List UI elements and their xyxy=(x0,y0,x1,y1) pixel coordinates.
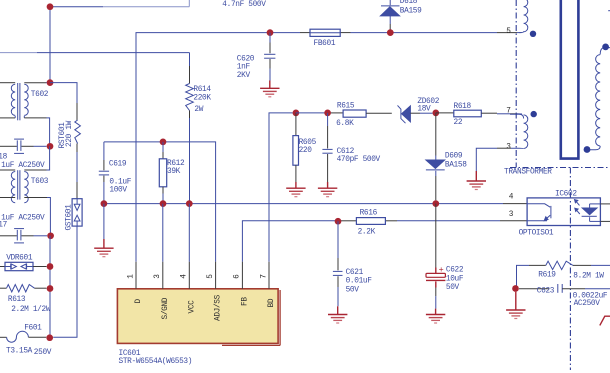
svg-text:2.2M 1/2W: 2.2M 1/2W xyxy=(11,306,51,314)
svg-text:C618: C618 xyxy=(0,154,8,162)
LED inside IC602 xyxy=(582,208,597,215)
resistor R605 220 xyxy=(295,113,297,136)
ground for R619/C623 xyxy=(506,292,525,319)
node: C618 right junction xyxy=(47,143,54,150)
node: T602 top junction xyxy=(47,79,54,86)
pin 5 lead of IC601 xyxy=(215,262,217,289)
capacitor C617 (X-cap) xyxy=(0,235,5,237)
wire: IC pin4 lead xyxy=(188,204,190,262)
svg-text:22: 22 xyxy=(454,119,463,127)
svg-text:4: 4 xyxy=(181,274,189,279)
polarity dot secondary bottom (blue) xyxy=(584,146,591,153)
svg-text:5: 5 xyxy=(207,274,215,279)
diode D609 BA158 xyxy=(435,113,437,156)
transformer primary winding pin5 (top) xyxy=(519,0,528,33)
node: fuse junction xyxy=(46,334,53,341)
svg-text:R614: R614 xyxy=(193,86,211,94)
svg-text:C623: C623 xyxy=(537,288,555,296)
svg-text:FB601: FB601 xyxy=(314,40,336,48)
transformer T602 xyxy=(0,82,5,84)
svg-text:4: 4 xyxy=(509,194,514,202)
transformer primary winding pins 7-3 xyxy=(510,114,524,118)
resistor R612 39K xyxy=(162,142,164,152)
transformer core xyxy=(561,0,579,159)
svg-text:0.1uF: 0.1uF xyxy=(109,179,131,187)
resistor R615 6.8K xyxy=(343,110,366,117)
varistor VDR601 xyxy=(0,266,5,268)
stub winding at top right edge xyxy=(608,10,610,12)
svg-text:6: 6 xyxy=(234,274,242,279)
ground for C622 xyxy=(426,309,445,323)
optocoupler IC602 box xyxy=(527,198,600,226)
svg-text:3: 3 xyxy=(506,143,511,151)
op-amp U1 style IC601 STR-W6554A body xyxy=(117,289,278,344)
svg-text:5: 5 xyxy=(506,28,511,36)
pin 6 lead of IC601 xyxy=(241,262,243,289)
node: D618 anode junction on drain net xyxy=(387,29,394,36)
svg-text:1nF: 1nF xyxy=(237,64,251,72)
node: R605/BD junction xyxy=(293,110,300,117)
wire: drain net from IC pin1 up and right to transformer pin5 xyxy=(136,33,300,262)
wire: pin3 to ground xyxy=(497,147,511,149)
svg-text:220: 220 xyxy=(299,147,313,155)
svg-text:BA158: BA158 xyxy=(445,162,467,170)
diode D618 xyxy=(389,0,391,5)
resistor RST601 220 1W (vertical) xyxy=(50,83,77,103)
svg-text:IC601: IC601 xyxy=(119,350,141,358)
wire: S/GND rail (y=203.6) long horizontal xyxy=(104,203,503,205)
pin 1 lead of IC601 xyxy=(135,262,137,289)
transformer T603 xyxy=(0,169,5,171)
svg-text:100V: 100V xyxy=(109,186,127,194)
svg-text:2KV: 2KV xyxy=(237,72,251,80)
red annotation mark bottom right xyxy=(600,316,610,325)
svg-text:250V: 250V xyxy=(34,349,52,357)
svg-text:220K: 220K xyxy=(193,95,211,103)
svg-text:BA159: BA159 xyxy=(400,7,422,15)
svg-text:C612: C612 xyxy=(337,148,355,156)
wire: C619 down to ground xyxy=(103,204,105,239)
wire: GST601 down to fuse node xyxy=(53,226,77,337)
capacitor C620 xyxy=(269,33,271,43)
svg-text:2W: 2W xyxy=(194,106,203,114)
node: R614/VCC junction xyxy=(186,200,193,207)
svg-text:50V: 50V xyxy=(446,284,460,292)
wire: rail to R615 xyxy=(296,112,330,114)
wire: vertical from top junction down to T602 xyxy=(49,7,51,83)
svg-text:C621: C621 xyxy=(346,269,364,277)
svg-text:0.01uF: 0.01uF xyxy=(346,278,373,286)
phototransistor inside IC602 xyxy=(527,204,550,207)
resistor R619 8.2M 1W xyxy=(517,265,530,288)
svg-text:T602: T602 xyxy=(31,91,49,99)
capacitor C623 0.0022uF AC250V xyxy=(519,288,549,290)
fuse F601 T3.15A 250V xyxy=(0,336,7,338)
capacitor C612 470pF 500V xyxy=(327,113,329,126)
resistor R618 22 xyxy=(436,112,454,114)
svg-text:10uF: 10uF xyxy=(446,275,464,283)
svg-text:OPTOISO1: OPTOISO1 xyxy=(519,229,554,237)
svg-text:BD: BD xyxy=(268,298,276,307)
svg-text:0.1uF AC250V: 0.1uF AC250V xyxy=(0,162,45,170)
wire: IC pin3 lead xyxy=(162,204,164,262)
svg-text:D: D xyxy=(135,299,143,304)
polarity dot secondary top (blue) xyxy=(602,44,609,51)
svg-text:D609: D609 xyxy=(445,153,463,161)
pin 4 lead of IC601 xyxy=(188,262,190,289)
capacitor C621 0.01uF 50V xyxy=(337,221,339,258)
svg-text:F601: F601 xyxy=(24,325,42,333)
surge arrester GST601 xyxy=(72,199,82,226)
node: C619 bottom junction xyxy=(101,200,108,207)
transformer secondary winding xyxy=(600,48,610,55)
svg-text:18V: 18V xyxy=(417,106,431,114)
node: R612 bottom junction xyxy=(160,200,167,207)
svg-text:220 1W: 220 1W xyxy=(66,120,74,147)
node: VDR601 junction xyxy=(47,263,54,270)
wire: to transformer pin 7 xyxy=(497,113,510,115)
svg-text:2.2K: 2.2K xyxy=(358,229,376,237)
svg-text:39K: 39K xyxy=(167,168,181,176)
fuse FB601 xyxy=(310,29,340,36)
ground for transformer pin3 xyxy=(467,171,486,190)
svg-text:+: + xyxy=(439,265,444,275)
node A: top-left junction xyxy=(47,3,54,10)
svg-text:R615: R615 xyxy=(337,103,355,111)
ground for C619 xyxy=(94,239,113,257)
svg-text:C622: C622 xyxy=(446,267,464,275)
capacitor C619 0.1uF 100V xyxy=(103,142,105,160)
wire: IC602 right-side leads xyxy=(600,203,610,205)
svg-text:S/GND: S/GND xyxy=(162,297,170,319)
svg-text:R619: R619 xyxy=(538,272,556,280)
svg-text:STR-W6554A(W6553): STR-W6554A(W6553) xyxy=(119,358,193,366)
svg-text:IC602: IC602 xyxy=(555,191,577,199)
node: R612 top junction xyxy=(160,139,167,146)
svg-text:R613: R613 xyxy=(8,296,26,304)
node: D609/C622 junction on S/GND rail xyxy=(432,200,439,207)
wire: ADJ/SS rail (y=142) xyxy=(104,142,216,262)
svg-text:1: 1 xyxy=(127,274,135,279)
wire: FB rail from IC pin6 to optocoupler xyxy=(242,221,341,262)
svg-text:VDR601: VDR601 xyxy=(6,254,33,262)
svg-text:7: 7 xyxy=(260,274,268,279)
node: C620 tap junction xyxy=(267,29,274,36)
node: C617 junction xyxy=(47,232,54,239)
svg-text:C620: C620 xyxy=(237,55,255,63)
svg-text:R616: R616 xyxy=(360,209,378,217)
capacitor C618 (X-cap) xyxy=(0,145,5,147)
svg-text:C617: C617 xyxy=(0,221,8,229)
svg-text:VCC: VCC xyxy=(188,300,196,314)
svg-text:TRANSFORMER: TRANSFORMER xyxy=(504,168,552,176)
isolation boundary dash-dot lines xyxy=(515,0,517,168)
svg-text:R618: R618 xyxy=(454,103,472,111)
svg-text:ADJ/SS: ADJ/SS xyxy=(215,294,223,321)
svg-text:50V: 50V xyxy=(346,286,360,294)
resistor R614 220K 2W xyxy=(189,53,191,66)
svg-text:4.7nF 500V: 4.7nF 500V xyxy=(222,1,266,9)
node: C621 tap junction xyxy=(335,218,342,225)
node: R613 junction xyxy=(47,285,54,292)
svg-text:C619: C619 xyxy=(109,160,127,168)
ground for C612 xyxy=(318,182,337,197)
wire: upper horizontal line to R614 xyxy=(0,52,37,54)
node: C612 tap junction xyxy=(324,110,331,117)
light arrows xyxy=(576,201,580,206)
svg-text:3: 3 xyxy=(509,211,514,219)
zener diode ZD602 18V xyxy=(398,105,406,123)
svg-text:T603: T603 xyxy=(31,178,49,186)
polarity dot (blue) xyxy=(530,31,536,37)
svg-text:8.2M 1W: 8.2M 1W xyxy=(573,272,604,280)
pin 3 lead of IC601 xyxy=(162,262,164,289)
svg-text:3: 3 xyxy=(154,274,162,279)
svg-text:GST601: GST601 xyxy=(65,204,73,231)
wire: top-left horizontal net xyxy=(50,6,103,8)
capacitor C622 10uF 50V (electrolytic) xyxy=(435,204,437,268)
svg-text:R605: R605 xyxy=(299,139,317,147)
svg-text:AC250V: AC250V xyxy=(574,300,601,308)
ground for C620 xyxy=(260,81,279,97)
resistor R616 2.2K xyxy=(356,218,385,225)
ground for R605 xyxy=(286,182,305,197)
svg-text:FB: FB xyxy=(241,297,249,306)
polarity dot (blue) xyxy=(531,111,537,117)
resistor R613 2.2M 1/2W xyxy=(0,287,7,289)
svg-text:6.8K: 6.8K xyxy=(336,120,354,128)
svg-text:D618: D618 xyxy=(400,0,418,6)
node: ZD602/R618/D609 junction xyxy=(432,110,439,117)
wire: left vertical bus xyxy=(49,236,51,338)
svg-text:470pF 500V: 470pF 500V xyxy=(337,156,381,164)
pin 7 lead of IC601 xyxy=(268,262,270,289)
wire: BD rail from IC pin7 up to R605 node xyxy=(269,113,293,262)
ground for C621 xyxy=(328,306,347,323)
node: R619/C623 ground junction xyxy=(512,285,519,292)
svg-text:T3.15A: T3.15A xyxy=(6,348,33,356)
